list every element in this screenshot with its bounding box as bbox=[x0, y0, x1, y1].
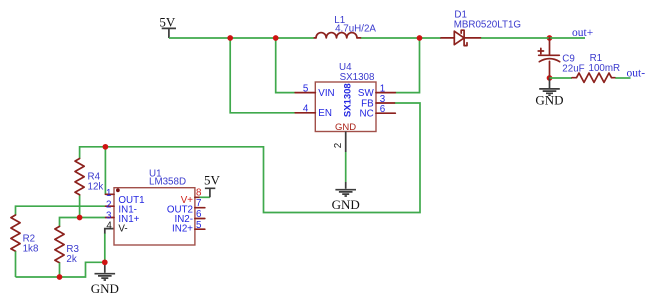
svg-text:VIN: VIN bbox=[318, 88, 334, 99]
junction EN on 5V rail bbox=[227, 35, 233, 41]
svg-text:NC: NC bbox=[360, 109, 374, 120]
svg-text:MBR0520LT1G: MBR0520LT1G bbox=[454, 19, 521, 30]
pin 6 IN2- bbox=[195, 218, 205, 220]
svg-text:1k8: 1k8 bbox=[23, 243, 39, 254]
svg-text:5: 5 bbox=[196, 220, 202, 231]
svg-text:out-: out- bbox=[627, 67, 646, 79]
svg-text:1: 1 bbox=[106, 188, 111, 199]
diode D1 bbox=[441, 10, 521, 46]
IC U1 LM358D bbox=[105, 168, 204, 245]
svg-text:4: 4 bbox=[303, 103, 309, 114]
pin 6 NC bbox=[376, 112, 395, 114]
wire main 5V rail bbox=[169, 37, 314, 39]
wire bottom gnd rail bbox=[16, 262, 105, 277]
pin 4 EN bbox=[295, 112, 315, 114]
junction VIN on 5V rail bbox=[273, 35, 279, 41]
resistor R3 bbox=[55, 226, 80, 277]
svg-text:7: 7 bbox=[196, 198, 201, 209]
svg-text:GND: GND bbox=[332, 197, 360, 212]
wire U4 gnd bbox=[345, 152, 347, 182]
svg-text:22uF: 22uF bbox=[562, 64, 584, 75]
pin 3 IN1+ bbox=[106, 217, 114, 219]
pin 2 IN1- bbox=[106, 205, 114, 207]
junction R4 / R3 / IN1+ bbox=[77, 215, 83, 221]
wire EN drop bbox=[230, 38, 295, 113]
svg-text:R1: R1 bbox=[590, 53, 603, 64]
svg-text:2: 2 bbox=[106, 199, 111, 210]
svg-text:12k: 12k bbox=[88, 181, 104, 192]
pin 7 OUT2 bbox=[195, 207, 205, 209]
svg-text:1: 1 bbox=[380, 83, 385, 94]
svg-text:LM358D: LM358D bbox=[149, 177, 186, 188]
svg-text:SX1308: SX1308 bbox=[340, 72, 375, 83]
svg-text:6: 6 bbox=[380, 104, 386, 115]
pin 8 V+ bbox=[195, 196, 200, 198]
wire C9 to R1 bbox=[550, 77, 573, 79]
IC U4 SX1308 bbox=[295, 62, 395, 152]
wire SW to rail bbox=[395, 38, 419, 93]
wire out+ bbox=[481, 37, 585, 39]
wire FB net bbox=[80, 103, 420, 213]
ground C9 bbox=[535, 78, 563, 108]
svg-text:5: 5 bbox=[303, 83, 309, 94]
wire pin8 to 5V bbox=[200, 196, 210, 198]
capacitor C9 bbox=[538, 38, 584, 78]
junction V- / GND bbox=[102, 259, 108, 265]
junction R3 bottom on gnd rail bbox=[57, 274, 63, 280]
junction C9 bottom / out- bbox=[547, 75, 553, 81]
svg-text:V-: V- bbox=[118, 224, 127, 235]
power flag 5V top-left bbox=[159, 14, 176, 38]
wire V- to gnd bbox=[105, 229, 114, 234]
resistor R4 bbox=[75, 159, 103, 218]
pin 1 SW bbox=[376, 92, 395, 94]
svg-text:GND: GND bbox=[335, 122, 356, 133]
pin 2 GND bottom bbox=[345, 132, 347, 153]
pin1 marker dot bbox=[116, 188, 120, 192]
svg-text:4: 4 bbox=[106, 220, 112, 231]
power flag 5V at U1 bbox=[204, 173, 221, 198]
svg-text:2: 2 bbox=[333, 143, 344, 148]
junction out+ / C9 top bbox=[547, 35, 553, 41]
svg-text:EN: EN bbox=[318, 108, 332, 119]
svg-text:GND: GND bbox=[535, 93, 563, 108]
svg-text:6: 6 bbox=[196, 209, 202, 220]
svg-text:5V: 5V bbox=[204, 173, 221, 188]
svg-text:SX1308: SX1308 bbox=[343, 83, 354, 117]
pin 3 FB bbox=[376, 102, 395, 104]
svg-text:IN2+: IN2+ bbox=[172, 224, 193, 235]
resistor R1 bbox=[572, 53, 620, 83]
svg-text:4.7uH/2A: 4.7uH/2A bbox=[335, 24, 376, 35]
svg-text:out+: out+ bbox=[572, 27, 593, 39]
svg-text:GND: GND bbox=[91, 281, 119, 296]
wire IN1+ / R3 top bbox=[60, 218, 106, 227]
junction SW on rail bbox=[417, 35, 423, 41]
inductor L1 bbox=[314, 15, 376, 38]
ground U1 bbox=[91, 262, 119, 296]
ground U4 bbox=[332, 182, 360, 212]
wire IN1- to R2 bbox=[16, 206, 106, 215]
svg-text:5V: 5V bbox=[159, 14, 176, 29]
pin 5 VIN bbox=[295, 92, 315, 94]
resistor R2 bbox=[11, 215, 39, 277]
wire rail after L1 bbox=[361, 37, 442, 39]
wire OUT1 drop bbox=[104, 147, 106, 195]
junction OUT1 / R4 / FB bbox=[103, 144, 109, 150]
wire VIN drop bbox=[276, 38, 296, 93]
wire out- bbox=[615, 77, 630, 79]
svg-text:100mR: 100mR bbox=[589, 63, 621, 74]
svg-text:2k: 2k bbox=[66, 254, 76, 265]
pin 1 OUT1 bbox=[105, 193, 114, 195]
pin 5 IN2+ bbox=[195, 228, 205, 230]
